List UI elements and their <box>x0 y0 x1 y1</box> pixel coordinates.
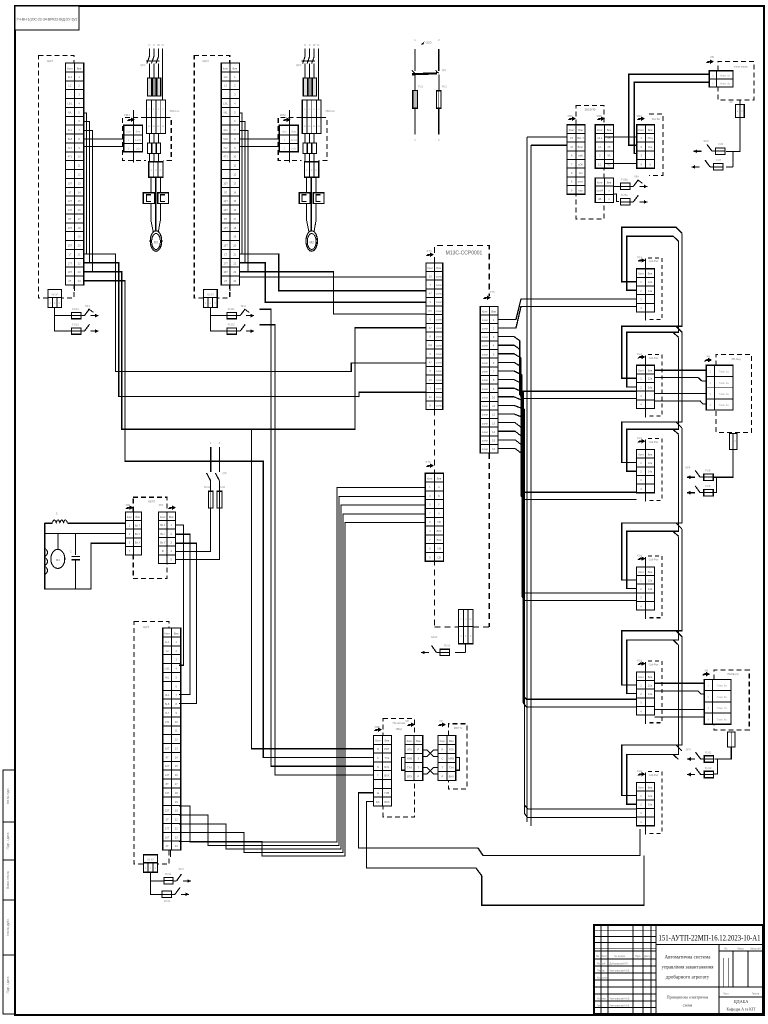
svg-text:ТХА: ТХА <box>407 765 412 769</box>
svg-text:Вх.У: Вх.У <box>135 541 141 545</box>
svg-text:15T: 15T <box>68 244 73 248</box>
svg-text:КМ2: КМ2 <box>280 113 286 117</box>
relay module KL5 loop wire <box>622 631 682 685</box>
svg-text:Конт: Конт <box>482 310 488 314</box>
svg-text:1L1: 1L1 <box>223 75 228 79</box>
wire <box>150 872 163 881</box>
svg-text:Вх.Т: Вх.Т <box>135 523 141 527</box>
wire <box>84 138 124 140</box>
svg-text:Вив: Вив <box>416 739 421 743</box>
svg-text:УВ: УВ <box>437 520 441 524</box>
wire <box>498 306 637 328</box>
terminal block XB2b <box>302 118 321 134</box>
wire <box>498 397 637 707</box>
svg-text:FU41: FU41 <box>204 486 211 489</box>
svg-text:Глам. 5а: Глам. 5а <box>717 685 728 688</box>
svg-text:схем: схем <box>436 387 442 390</box>
frame margin boxes <box>3 770 15 1014</box>
svg-text:10T: 10T <box>223 181 228 185</box>
svg-text:схем: схем <box>482 388 488 391</box>
svg-text:Дата: Дата <box>644 954 650 958</box>
svg-text:QF1: QF1 <box>140 63 146 67</box>
svg-text:Вив: Вив <box>174 631 179 635</box>
svg-text:схем: схем <box>436 327 442 330</box>
enclosure dashed box KM1 <box>123 118 147 161</box>
wire <box>306 177 308 193</box>
wire <box>639 185 647 187</box>
svg-text:7L7: 7L7 <box>223 146 228 150</box>
svg-text:SA10: SA10 <box>431 635 438 639</box>
relay module KL1 loop wire <box>622 227 682 281</box>
svg-text:ТХ2: ТХ2 <box>385 756 390 760</box>
wire <box>498 380 637 601</box>
svg-text:Нлам. 2в: Нлам. 2в <box>720 83 731 86</box>
svg-text:М13С-ССР0001: М13С-ССР0001 <box>446 251 483 257</box>
svg-text:ЗВ1ФПВ: ЗВ1ФПВ <box>584 108 595 112</box>
svg-text:КМ1: КМ1 <box>124 113 130 117</box>
relay module KL6 inner loop wire <box>627 754 679 804</box>
svg-text:схем: схем <box>436 379 442 382</box>
svg-text:N: N <box>162 43 164 47</box>
svg-text:Вх.г: Вх.г <box>160 532 165 536</box>
svg-text:Вив: Вив <box>436 266 441 270</box>
svg-text:Вив: Вив <box>169 515 174 519</box>
svg-text:U: U <box>304 43 306 47</box>
svg-text:13T: 13T <box>165 791 170 795</box>
svg-text:9T: 9T <box>224 190 227 194</box>
wire <box>175 543 196 703</box>
wire <box>498 354 637 492</box>
wire <box>498 371 637 593</box>
svg-text:12а: 12а <box>648 578 653 582</box>
svg-text:N: N <box>377 765 379 769</box>
wire <box>175 508 219 559</box>
svg-text:ХВ лінд: ХВ лінд <box>731 357 741 361</box>
svg-text:схем: схем <box>436 396 442 399</box>
wire <box>210 447 212 472</box>
disconnect switch QS1 <box>414 49 416 71</box>
enclosure dashed box HL2 <box>716 354 751 432</box>
crossover wire pair 2 <box>423 768 438 775</box>
svg-text:ЩР2: ЩР2 <box>202 59 209 63</box>
svg-text:РRТ: РRТ <box>384 747 390 751</box>
svg-text:15T: 15T <box>223 244 228 248</box>
svg-text:Нлам. 1в: Нлам. 1в <box>720 74 731 77</box>
svg-text:А: А <box>438 485 440 489</box>
wire <box>179 488 425 842</box>
svg-text:17T: 17T <box>223 261 228 265</box>
wire chain bus <box>676 233 682 326</box>
svg-text:Б: Б <box>438 494 440 498</box>
PLC controller dashed box U1 М13С-ССР0001 <box>435 246 490 297</box>
wire <box>150 204 152 221</box>
svg-text:Принципова електрична: Принципова електрична <box>667 995 709 1000</box>
svg-text:ХВ14 кл: ХВ14 кл <box>170 109 180 113</box>
svg-text:FU10: FU10 <box>444 644 451 648</box>
svg-text:Вх.У: Вх.У <box>135 532 141 536</box>
svg-text:3L1: 3L1 <box>223 128 228 132</box>
wire <box>367 802 645 906</box>
wire <box>175 508 210 551</box>
svg-text:Масштаб: Масштаб <box>750 948 761 951</box>
svg-text:15T: 15T <box>165 809 170 813</box>
svg-text:17T: 17T <box>68 261 73 265</box>
wire <box>260 309 374 766</box>
svg-text:Coil-Pwr: Coil-Pwr <box>649 774 659 777</box>
svg-text:схем: схем <box>482 431 488 434</box>
wire <box>614 185 621 187</box>
svg-text:2T: 2T <box>68 279 71 283</box>
svg-text:Вихт: Вихт <box>578 145 584 149</box>
svg-text:схем: схем <box>482 353 488 356</box>
connector XB9P2 <box>204 290 218 298</box>
connector XB9P3 <box>143 855 157 863</box>
svg-text:2T: 2T <box>166 844 169 848</box>
wire <box>91 315 99 317</box>
svg-text:ЦДАБА: ЦДАБА <box>734 999 750 1004</box>
overload relay KK2 pole 1 <box>299 193 310 204</box>
svg-text:ГЧ-ВН-1(20С-22-34-ВРК22-ВІД.ОУ: ГЧ-ВН-1(20С-22-34-ВРК22-ВІД.ОУ-3)/2 <box>17 18 78 22</box>
svg-text:Глам. 4а: Глам. 4а <box>719 404 730 407</box>
svg-text:Конт: Конт <box>597 181 603 185</box>
svg-text:4T1: 4T1 <box>223 155 228 159</box>
wire <box>175 534 190 694</box>
svg-text:12а: 12а <box>648 280 653 284</box>
svg-text:Ужеловський А.В.: Ужеловський А.В. <box>610 969 631 972</box>
wire <box>84 281 374 758</box>
svg-text:Автоматична система: Автоматична система <box>665 956 712 961</box>
svg-text:Конт: Конт <box>127 515 133 519</box>
svg-text:ХВт: ХВт <box>634 175 640 179</box>
wire <box>239 130 248 271</box>
svg-text:Глам. 3а: Глам. 3а <box>719 393 730 396</box>
wire <box>229 285 231 291</box>
svg-text:ТХА: ТХА <box>449 765 454 769</box>
svg-text:1T: 1T <box>166 818 169 822</box>
svg-text:Розроб.: Розроб. <box>597 962 606 965</box>
svg-text:Консульт: Консульт <box>597 976 608 979</box>
svg-text:Р: Р <box>418 774 420 778</box>
wire <box>304 133 306 142</box>
svg-text:М2: М2 <box>309 241 314 245</box>
svg-text:Р: Р <box>418 748 420 752</box>
svg-text:С: С <box>441 757 443 761</box>
svg-text:усо/Н: усо/Н <box>596 189 603 193</box>
svg-text:FU6: FU6 <box>718 142 723 146</box>
svg-text:Конт: Конт <box>427 477 433 481</box>
svg-text:ЩР3: ЩР3 <box>143 625 150 629</box>
wire <box>421 652 429 654</box>
svg-text:1T: 1T <box>68 252 71 256</box>
svg-text:Вх1.7: Вх1.7 <box>577 136 584 140</box>
svg-text:Вив: Вив <box>449 739 454 743</box>
terminal block XB2c <box>304 162 318 178</box>
svg-text:Вив: Вив <box>648 453 653 457</box>
svg-text:схем: схем <box>436 284 442 287</box>
svg-text:16T: 16T <box>223 270 228 274</box>
wire <box>170 850 172 857</box>
relay module KL4 loop wire <box>622 523 682 580</box>
svg-text:12T: 12T <box>165 764 170 768</box>
svg-text:ВТХ: ВТХ <box>407 774 412 778</box>
svg-text:FU32: FU32 <box>164 899 171 903</box>
svg-text:1хх: 1хх <box>578 171 583 175</box>
svg-text:схем: схем <box>436 344 442 347</box>
wire <box>84 254 426 372</box>
svg-text:4T1: 4T1 <box>165 720 170 724</box>
svg-text:13T: 13T <box>223 226 228 230</box>
svg-text:FU2: FU2 <box>442 85 447 89</box>
enclosure dashed box KL1 <box>648 258 662 320</box>
svg-text:FU12: FU12 <box>705 766 712 770</box>
svg-text:14а: 14а <box>648 385 653 389</box>
svg-text:ХВ 9П: ХВ 9П <box>207 293 214 296</box>
svg-text:Конт: Конт <box>67 66 73 70</box>
wire <box>73 285 75 291</box>
wire <box>414 108 416 134</box>
svg-text:рехх: рехх <box>578 181 584 184</box>
svg-text:Рел.Вл: Рел.Вл <box>652 118 661 121</box>
svg-text:хОК: хОК <box>578 162 583 166</box>
svg-text:Підп. і дата: Підп. і дата <box>6 976 10 993</box>
svg-text:Конт: Конт <box>638 368 644 372</box>
relay module KL2 inner loop wire <box>627 332 679 387</box>
svg-text:ОВ(х): ОВ(х) <box>396 728 403 731</box>
enclosure dashed box QF2 circuit <box>194 56 230 299</box>
wire <box>179 523 425 857</box>
svg-text:7L7: 7L7 <box>68 146 73 150</box>
wire <box>84 263 426 397</box>
wire <box>179 505 425 849</box>
enclosure dashed box KL2 <box>648 354 662 416</box>
svg-text:РУ: РУ <box>429 309 433 313</box>
svg-text:Coil-Pwr: Coil-Pwr <box>649 441 659 444</box>
svg-text:Вив: Вив <box>607 128 612 132</box>
wire <box>84 146 124 148</box>
wire <box>239 122 245 263</box>
svg-text:Вив: Вив <box>437 477 442 481</box>
svg-text:Coil-Pwr: Coil-Pwr <box>649 260 659 263</box>
wire <box>498 362 637 499</box>
crossover wire pair 1 <box>423 750 438 757</box>
svg-text:L3/L: L3/L <box>67 102 73 106</box>
overload relay KK2 pole 2 <box>313 193 324 204</box>
svg-text:В: В <box>162 549 164 553</box>
shield bracket left <box>402 758 405 771</box>
svg-text:17T: 17T <box>165 826 170 830</box>
svg-text:схем: схем <box>482 396 488 399</box>
svg-text:Глам. 6а: Глам. 6а <box>717 696 728 699</box>
svg-text:схем: схем <box>436 353 442 356</box>
wire <box>45 532 126 534</box>
svg-text:Інв.№ підл.: Інв.№ підл. <box>6 788 10 805</box>
svg-text:4.1: 4.1 <box>598 145 602 149</box>
enclosure dashed box QF3 panel <box>134 621 169 864</box>
svg-text:схем: схем <box>482 422 488 425</box>
svg-text:схем: схем <box>436 301 442 304</box>
svg-text:схем: схем <box>436 293 442 296</box>
svg-text:ХР: ХР <box>405 719 409 723</box>
svg-text:Вив: Вив <box>578 128 583 132</box>
svg-text:5L8: 5L8 <box>68 137 73 141</box>
svg-text:ГУВ: ГУВ <box>385 791 390 795</box>
svg-text:ХВ24 кл: ХВ24 кл <box>325 109 335 113</box>
wire <box>150 177 152 193</box>
wire <box>175 525 183 665</box>
svg-text:QS: QS <box>222 471 226 475</box>
svg-text:Конт: Конт <box>375 739 381 743</box>
svg-text:SF9: SF9 <box>686 747 692 751</box>
svg-text:АТХ: АТХ <box>449 748 454 752</box>
svg-text:Вив: Вив <box>491 310 496 314</box>
wire bus <box>526 137 528 822</box>
svg-text:Х: Х <box>418 757 420 761</box>
svg-text:14а: 14а <box>648 587 653 591</box>
svg-text:L: L <box>56 512 58 516</box>
svg-text:14а: 14а <box>648 692 653 696</box>
wire <box>654 682 704 684</box>
svg-text:Кон: Кон <box>126 131 131 134</box>
svg-text:ХТ4: ХТ4 <box>426 249 432 253</box>
svg-text:Підп. і дата: Підп. і дата <box>6 832 10 849</box>
svg-text:V: V <box>309 43 311 47</box>
relay module KL1 inner loop wire <box>627 236 679 290</box>
svg-text:12.1: 12.1 <box>597 136 603 140</box>
svg-text:Вх.У: Вх.У <box>160 540 166 544</box>
svg-text:9T: 9T <box>166 755 169 759</box>
wire <box>304 154 306 162</box>
wire <box>240 263 426 303</box>
svg-text:ЕХ: ЕХ <box>376 800 380 804</box>
wire <box>179 514 425 853</box>
svg-text:Вив: Вив <box>607 181 612 185</box>
svg-text:схем: схем <box>436 405 442 408</box>
svg-text:3L1: 3L1 <box>165 693 170 697</box>
svg-text:Ужеловський А.В.: Ужеловський А.В. <box>610 1004 631 1007</box>
svg-text:FU1: FU1 <box>418 85 423 89</box>
svg-text:елем. керув.: елем. керув. <box>734 66 749 69</box>
svg-text:Конт: Конт <box>223 66 229 70</box>
svg-text:схем: схем <box>482 319 488 322</box>
svg-text:Конт: Конт <box>569 128 575 132</box>
svg-text:14T: 14T <box>165 773 170 777</box>
svg-text:12T: 12T <box>223 199 228 203</box>
svg-text:4T1: 4T1 <box>68 155 73 159</box>
svg-text:12T: 12T <box>68 199 73 203</box>
wire <box>687 476 695 478</box>
svg-text:12а: 12а <box>648 377 653 381</box>
generator G1 <box>51 549 65 568</box>
wire <box>465 644 467 653</box>
svg-text:FU8: FU8 <box>705 469 711 473</box>
svg-text:Конт: Конт <box>160 515 166 519</box>
svg-text:схем: схем <box>482 362 488 365</box>
svg-text:хівК: хівК <box>578 154 583 158</box>
svg-text:3L1: 3L1 <box>68 128 73 132</box>
svg-text:Конт: Конт <box>638 570 644 574</box>
enclosure dashed box KL5 <box>648 661 662 723</box>
svg-text:ВХ2: ВХ2 <box>437 538 442 542</box>
wire <box>498 423 522 428</box>
enclosure dashed box RS485 <box>449 724 467 789</box>
wire <box>687 758 695 760</box>
svg-text:КВП 7х: КВП 7х <box>454 726 463 730</box>
wire <box>84 272 426 429</box>
wire <box>240 272 426 314</box>
svg-text:А1/А2: А1/А2 <box>290 139 297 142</box>
svg-text:схем: схем <box>436 362 442 365</box>
svg-text:8T: 8T <box>68 217 71 221</box>
wire <box>527 136 567 138</box>
svg-text:12а: 12а <box>648 794 653 798</box>
relay module KL5 inner loop wire <box>627 640 679 694</box>
terminal block XB1b <box>147 118 166 134</box>
svg-text:14T: 14T <box>223 208 228 212</box>
wire <box>694 150 702 152</box>
svg-text:схем: схем <box>436 310 442 313</box>
connector XB9P1 <box>48 290 62 298</box>
svg-text:ХВ 9П: ХВ 9П <box>51 293 58 296</box>
terminal block XB2a <box>302 100 321 118</box>
svg-text:схем: схем <box>436 275 442 278</box>
svg-text:Глам. 8а: Глам. 8а <box>717 718 728 721</box>
svg-text:Конт: Конт <box>638 128 644 132</box>
wire <box>304 49 306 57</box>
svg-text:Конт: Конт <box>638 675 644 679</box>
svg-text:5L8: 5L8 <box>165 702 170 706</box>
relay module KL6 loop wire <box>622 745 682 796</box>
svg-text:ВХ2: ВХ2 <box>437 529 442 533</box>
wire <box>239 146 279 148</box>
svg-text:13T: 13T <box>68 226 73 230</box>
svg-text:N: N <box>317 43 319 47</box>
svg-text:М1: М1 <box>154 241 159 245</box>
svg-text:Конт: Конт <box>638 272 644 276</box>
svg-text:Вх.1: Вх.1 <box>160 523 166 527</box>
svg-text:FU5в: FU5в <box>621 178 628 182</box>
wire <box>714 747 731 759</box>
svg-text:ВНХ: ВНХ <box>449 774 455 778</box>
wire <box>240 276 426 278</box>
wire <box>239 138 279 140</box>
svg-text:Вив: Вив <box>77 66 82 70</box>
svg-text:Конт: Конт <box>407 739 413 743</box>
svg-text:УГщ: УГщ <box>648 136 654 140</box>
overload relay KK1 pole 2 <box>158 193 169 204</box>
svg-text:14а: 14а <box>648 289 653 293</box>
svg-text:ХВ: ХВ <box>704 668 708 672</box>
wire <box>654 369 706 371</box>
wire <box>358 793 640 856</box>
terminal block XB1a <box>147 100 166 118</box>
wire <box>306 204 308 221</box>
svg-text:схем: схем <box>482 345 488 348</box>
svg-text:Зм: Зм <box>596 954 600 958</box>
svg-text:тівх: тівх <box>578 188 583 192</box>
svg-text:12а: 12а <box>648 683 653 687</box>
svg-text:Кафедра А та КІТ: Кафедра А та КІТ <box>727 1008 757 1012</box>
svg-text:16T: 16T <box>165 835 170 839</box>
frequency converter dashed box UZ1 <box>383 719 392 736</box>
svg-text:ХР1: ХР1 <box>158 503 164 507</box>
svg-text:Конт: Конт <box>164 631 170 635</box>
svg-text:схем: схем <box>482 405 488 408</box>
svg-text:SF3: SF3 <box>178 867 184 871</box>
svg-text:РЕЛЕ-(4): РЕЛЕ-(4) <box>728 672 739 676</box>
svg-text:9В: 9В <box>598 197 601 201</box>
svg-text:Перев.: Перев. <box>597 969 605 972</box>
svg-text:N/L: N/L <box>68 110 73 114</box>
